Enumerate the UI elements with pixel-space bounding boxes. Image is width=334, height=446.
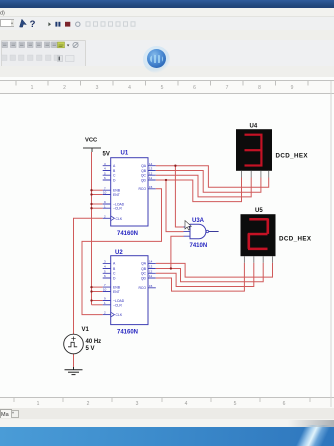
svg-text:8: 8 — [258, 85, 261, 91]
svg-text:U2: U2 — [115, 250, 123, 256]
top sheet ruler ticks and numbers — [16, 81, 308, 86]
svg-text:ENT: ENT — [113, 290, 120, 294]
combo box — [0, 19, 14, 27]
digit 3 segments — [245, 134, 263, 167]
left pin stubs — [103, 166, 111, 219]
svg-text:QC: QC — [141, 174, 147, 178]
source V1 clock — [64, 327, 101, 354]
junction node QD/gate — [165, 179, 167, 181]
sheet bottom border strip — [0, 397, 334, 409]
svg-text:DCD_HEX: DCD_HEX — [279, 236, 312, 243]
toolbar panel (2 rows) — [0, 40, 334, 66]
wire rail to U1 ENT — [92, 194, 103, 196]
svg-text:11: 11 — [149, 274, 152, 278]
wire U2.QB branch to U3A input3 — [171, 236, 184, 268]
svg-text:74160N: 74160N — [117, 231, 138, 237]
ground — [65, 367, 83, 375]
junction node QB2/gate — [170, 267, 172, 269]
wire U2.QB to U5 pin3 — [156, 263, 263, 282]
spacer band — [0, 30, 334, 40]
wire U1.RCO to U2.CLK — [82, 189, 162, 315]
svg-text:10: 10 — [103, 288, 107, 292]
junction node QA/gate — [174, 165, 176, 167]
svg-text:2: 2 — [63, 85, 66, 91]
toolbar icon: pause — [55, 22, 57, 27]
inner pin names — [113, 262, 125, 317]
svg-text:ENB: ENB — [113, 286, 121, 290]
junction dots on VCC rail — [90, 189, 92, 302]
wire rail to U2 ENT — [92, 291, 103, 293]
window title bar — [0, 0, 334, 8]
svg-text:4: 4 — [104, 167, 106, 171]
U5 pins — [244, 256, 272, 263]
svg-text:QD: QD — [141, 178, 147, 182]
svg-text:3: 3 — [104, 162, 106, 166]
right pin stubs — [148, 263, 156, 287]
sheet tab — [0, 409, 12, 418]
svg-text:5: 5 — [104, 269, 106, 273]
mouse cursor — [185, 221, 191, 231]
svg-text:5: 5 — [234, 401, 237, 407]
counter U2 74160N — [103, 250, 156, 336]
watermark sphere — [143, 46, 170, 73]
svg-text:3: 3 — [96, 85, 99, 91]
pin numbers — [103, 260, 153, 315]
wire rail to U2 ENB — [92, 286, 103, 288]
svg-text:QA: QA — [141, 262, 147, 266]
wire V1 to U1 CLK — [74, 218, 103, 334]
svg-text:3: 3 — [104, 260, 106, 264]
sigma/slash icon — [73, 42, 78, 47]
svg-text:Ma: Ma — [1, 412, 10, 418]
wire U2.QD to U5 pin1 — [156, 263, 245, 291]
svg-text:QC: QC — [141, 272, 147, 276]
toolbar row 1 — [0, 17, 334, 30]
svg-text:6: 6 — [104, 176, 106, 180]
svg-text:CLK: CLK — [116, 217, 123, 221]
svg-text:4: 4 — [128, 85, 131, 91]
svg-text:DCD_HEX: DCD_HEX — [276, 153, 309, 160]
wire rail to U1 ~CLR — [92, 207, 103, 209]
wire U1.QA branch to U3A input1 — [175, 166, 183, 227]
svg-text:RCO: RCO — [138, 286, 146, 290]
wire rail to U1 ~LOAD — [92, 203, 103, 205]
svg-text:40 Hz: 40 Hz — [86, 339, 102, 345]
svg-text:3: 3 — [136, 401, 139, 407]
svg-text:6: 6 — [283, 401, 286, 407]
wire U2.QC to U5 pin2 — [156, 263, 254, 287]
svg-text:VCC: VCC — [85, 138, 98, 144]
svg-text:15: 15 — [149, 185, 153, 189]
wire U2.QA to U5 pin4 — [156, 263, 273, 277]
wire U1.QB to U4 pin3 — [156, 171, 261, 193]
svg-text:5 V: 5 V — [86, 346, 95, 352]
tab bar — [0, 408, 334, 419]
bottom sheet ruler ticks and numbers — [14, 398, 310, 402]
wire U1.QD branch to U3A input2 — [166, 180, 184, 232]
svg-text:6: 6 — [104, 274, 106, 278]
svg-text:74160N: 74160N — [117, 330, 138, 336]
wire U1.QA to U4 pin4 — [156, 166, 269, 188]
toolbar icon: gray circle — [76, 22, 80, 26]
svg-text:2: 2 — [87, 401, 90, 407]
wire U1.QC to U4 pin2 — [156, 175, 251, 197]
left pin stubs — [103, 263, 111, 314]
svg-text:12: 12 — [149, 171, 153, 175]
toolbar disabled icons row1 — [86, 22, 135, 26]
svg-text:7: 7 — [226, 85, 229, 91]
pin numbers — [103, 162, 153, 219]
svg-text:11: 11 — [149, 176, 152, 180]
svg-text:*: * — [12, 412, 14, 418]
svg-text:5: 5 — [104, 171, 106, 175]
svg-text:QB: QB — [141, 267, 147, 271]
sheet top border strip — [0, 80, 334, 94]
svg-text:15: 15 — [149, 284, 153, 288]
sheet right edge — [330, 81, 332, 407]
svg-text:14: 14 — [149, 162, 153, 166]
svg-text:4: 4 — [185, 401, 188, 407]
svg-text:U4: U4 — [250, 124, 258, 130]
toolbar panel row 2 icons (disabled) — [2, 55, 60, 61]
svg-text:9: 9 — [291, 85, 294, 91]
display U4 DCD_HEX — [236, 124, 308, 178]
toolbar icon: combo dropdown arrow — [11, 23, 13, 25]
menu bar row — [0, 8, 334, 17]
svg-text:10: 10 — [103, 191, 107, 195]
svg-text:1: 1 — [31, 85, 34, 91]
display U5 DCD_HEX — [241, 208, 312, 263]
svg-text:RCO: RCO — [138, 187, 146, 191]
gate output stub — [209, 231, 219, 233]
svg-text:5: 5 — [161, 85, 164, 91]
nand gate U3A 7410N — [184, 218, 219, 249]
power VCC — [83, 138, 101, 153]
right pin stubs — [148, 166, 156, 189]
svg-text:1: 1 — [104, 204, 106, 208]
svg-text:13: 13 — [149, 167, 153, 171]
svg-text:4: 4 — [104, 265, 106, 269]
svg-text:12: 12 — [149, 269, 153, 273]
svg-text:2: 2 — [104, 311, 106, 315]
svg-text:d): d) — [0, 11, 5, 17]
green icon — [58, 42, 65, 48]
wire rail to U2 ~CLR — [92, 304, 103, 306]
svg-text:14: 14 — [149, 260, 153, 264]
svg-text:1: 1 — [37, 401, 40, 407]
inner pin names — [113, 164, 125, 221]
wire rail to U1 ENB — [92, 189, 103, 191]
gate input stubs — [184, 227, 191, 236]
svg-text:CLK: CLK — [116, 313, 123, 317]
strip below toolbars — [0, 66, 334, 78]
digit 2 segments — [248, 218, 270, 250]
svg-text:7: 7 — [104, 283, 106, 287]
window bottom strip — [0, 419, 334, 427]
svg-text:~CLR: ~CLR — [113, 207, 122, 211]
wire U1.QD to U4 pin1 — [156, 178, 242, 202]
svg-text:QA: QA — [141, 164, 147, 168]
svg-text:~CLR: ~CLR — [113, 303, 122, 307]
svg-text:V1: V1 — [82, 327, 90, 333]
wire V1 to ground — [73, 354, 75, 367]
svg-text:U5: U5 — [255, 208, 263, 214]
U4 pins — [242, 171, 269, 178]
toolbar icon: blue pointer arrow — [20, 19, 27, 27]
svg-text:7410N: 7410N — [190, 243, 208, 249]
svg-text:1: 1 — [104, 301, 106, 305]
counter U1 74160N — [103, 151, 156, 238]
svg-text:U1: U1 — [121, 151, 129, 157]
wire rail to U2 ~LOAD — [92, 300, 103, 302]
svg-text:QB: QB — [141, 169, 147, 173]
svg-text:5V: 5V — [103, 151, 110, 157]
wire VCC rail vertical — [91, 152, 93, 305]
clock wedge — [111, 312, 115, 317]
svg-text:QD: QD — [141, 276, 147, 280]
canvas — [0, 77, 334, 408]
svg-text:13: 13 — [149, 265, 153, 269]
toolbar icon: play — [48, 22, 51, 26]
svg-text:6: 6 — [193, 85, 196, 91]
toolbar icon: stop — [65, 22, 70, 27]
svg-text:2: 2 — [104, 214, 106, 218]
blue desktop band — [0, 427, 334, 446]
svg-text:?: ? — [30, 19, 36, 30]
svg-text:U3A: U3A — [192, 218, 205, 224]
svg-text:ENT: ENT — [113, 193, 120, 197]
clock wedge — [111, 216, 115, 221]
toolbar panel row 1 icons — [2, 42, 78, 48]
